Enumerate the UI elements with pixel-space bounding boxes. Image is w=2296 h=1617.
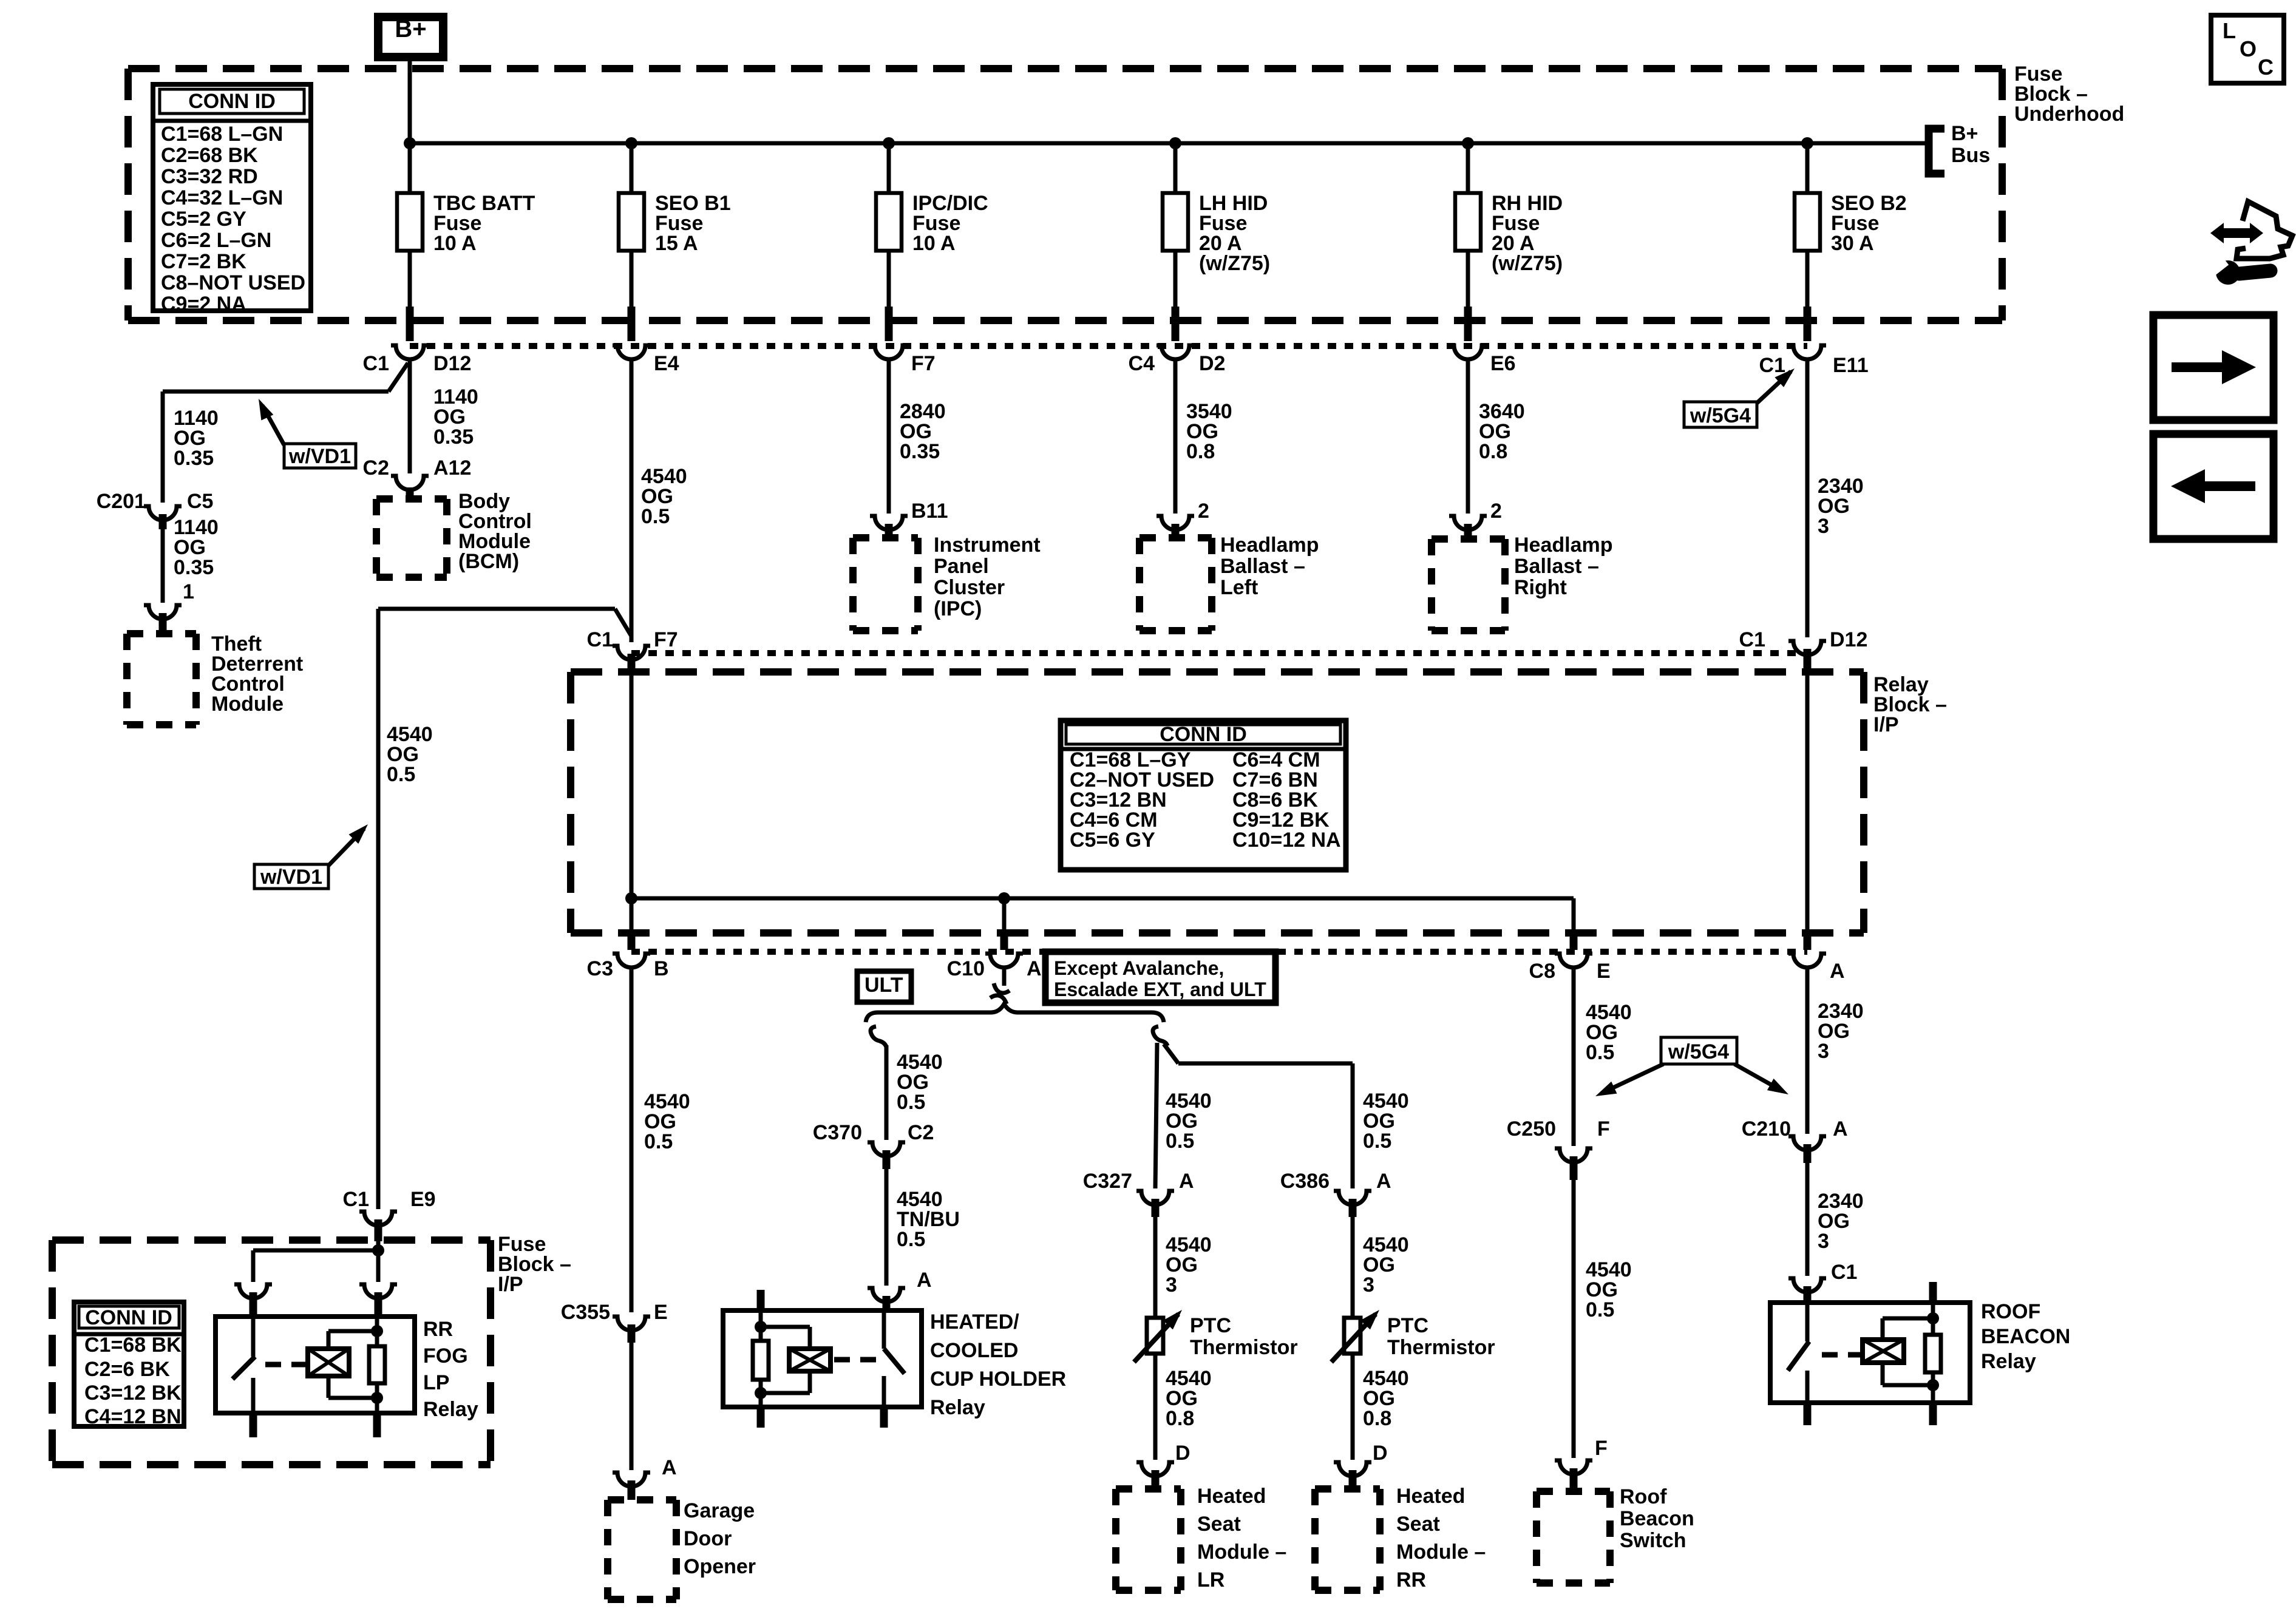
svg-text:B11: B11 bbox=[911, 500, 948, 523]
svg-text:C1: C1 bbox=[1831, 1261, 1857, 1284]
svg-text:C8–NOT USED: C8–NOT USED bbox=[161, 271, 305, 294]
svg-text:Door: Door bbox=[684, 1527, 732, 1550]
svg-text:0.5: 0.5 bbox=[897, 1228, 925, 1251]
svg-text:F7: F7 bbox=[911, 352, 936, 375]
svg-text:Relay: Relay bbox=[1981, 1350, 2036, 1373]
svg-text:C5: C5 bbox=[187, 490, 213, 513]
svg-text:C3=12 BK: C3=12 BK bbox=[84, 1381, 182, 1405]
svg-text:C2: C2 bbox=[908, 1121, 934, 1144]
svg-text:L: L bbox=[2223, 18, 2236, 43]
svg-text:C210: C210 bbox=[1742, 1117, 1791, 1141]
svg-text:F7: F7 bbox=[654, 628, 678, 651]
svg-text:C2=68 BK: C2=68 BK bbox=[161, 144, 258, 167]
svg-text:LR: LR bbox=[1197, 1568, 1224, 1592]
svg-text:A: A bbox=[1179, 1170, 1194, 1193]
svg-text:E: E bbox=[1597, 960, 1611, 983]
svg-text:I/P: I/P bbox=[1873, 713, 1899, 736]
svg-text:LP: LP bbox=[423, 1371, 449, 1394]
svg-text:C2=6 BK: C2=6 BK bbox=[84, 1358, 170, 1381]
svg-text:E4: E4 bbox=[654, 352, 679, 375]
svg-text:C5=6 GY: C5=6 GY bbox=[1070, 829, 1155, 852]
svg-text:2: 2 bbox=[1198, 500, 1209, 523]
svg-text:E6: E6 bbox=[1490, 352, 1516, 375]
svg-text:C: C bbox=[2258, 55, 2274, 80]
svg-text:Headlamp: Headlamp bbox=[1220, 534, 1319, 557]
svg-text:O: O bbox=[2240, 36, 2257, 61]
svg-text:D: D bbox=[1373, 1442, 1388, 1465]
svg-text:C2: C2 bbox=[363, 456, 389, 480]
svg-text:C6=2 L–GN: C6=2 L–GN bbox=[161, 229, 271, 252]
svg-text:3: 3 bbox=[1818, 1040, 1829, 1063]
svg-text:C201: C201 bbox=[97, 490, 146, 513]
svg-text:0.5: 0.5 bbox=[1586, 1298, 1614, 1321]
svg-text:3: 3 bbox=[1818, 515, 1829, 538]
svg-text:PTC: PTC bbox=[1190, 1314, 1231, 1337]
svg-text:Headlamp: Headlamp bbox=[1514, 534, 1613, 557]
svg-text:C3: C3 bbox=[587, 957, 613, 980]
svg-text:0.5: 0.5 bbox=[641, 505, 670, 528]
svg-text:Roof: Roof bbox=[1620, 1485, 1667, 1508]
svg-text:RR: RR bbox=[423, 1318, 453, 1341]
svg-text:Beacon: Beacon bbox=[1620, 1507, 1694, 1530]
svg-text:D12: D12 bbox=[1830, 628, 1867, 651]
svg-text:2: 2 bbox=[1490, 500, 1502, 523]
svg-text:(IPC): (IPC) bbox=[934, 597, 982, 620]
svg-text:w/5G4: w/5G4 bbox=[1690, 404, 1751, 427]
svg-text:C1=68 BK: C1=68 BK bbox=[84, 1334, 182, 1357]
svg-text:0.35: 0.35 bbox=[174, 447, 214, 470]
svg-text:w/5G4: w/5G4 bbox=[1668, 1040, 1729, 1063]
svg-text:0.8: 0.8 bbox=[1479, 440, 1507, 463]
svg-text:PTC: PTC bbox=[1387, 1314, 1428, 1337]
svg-text:Cluster: Cluster bbox=[934, 576, 1005, 599]
svg-text:10 A: 10 A bbox=[912, 232, 956, 255]
svg-text:FOG: FOG bbox=[423, 1344, 468, 1368]
svg-text:Bus: Bus bbox=[1951, 144, 1990, 167]
svg-text:Relay: Relay bbox=[930, 1396, 985, 1419]
svg-text:0.8: 0.8 bbox=[1363, 1407, 1391, 1430]
svg-text:0.5: 0.5 bbox=[897, 1091, 925, 1114]
svg-text:Escalade EXT, and ULT: Escalade EXT, and ULT bbox=[1054, 978, 1266, 1000]
svg-text:Heated: Heated bbox=[1396, 1485, 1465, 1508]
svg-text:ULT: ULT bbox=[864, 974, 903, 997]
svg-text:F: F bbox=[1597, 1117, 1610, 1141]
svg-text:(w/Z75): (w/Z75) bbox=[1492, 252, 1563, 275]
svg-text:C4=12 BN: C4=12 BN bbox=[84, 1405, 182, 1428]
svg-text:0.35: 0.35 bbox=[433, 425, 474, 449]
svg-text:C370: C370 bbox=[813, 1121, 862, 1144]
svg-text:0.5: 0.5 bbox=[1166, 1130, 1194, 1153]
svg-text:Right: Right bbox=[1514, 576, 1567, 599]
svg-text:Relay: Relay bbox=[423, 1398, 478, 1421]
svg-text:3: 3 bbox=[1363, 1273, 1374, 1297]
svg-text:B+: B+ bbox=[395, 16, 426, 42]
svg-text:Module: Module bbox=[211, 693, 284, 716]
svg-text:C1: C1 bbox=[1739, 628, 1765, 651]
svg-text:C7=2 BK: C7=2 BK bbox=[161, 250, 246, 273]
svg-text:Seat: Seat bbox=[1197, 1513, 1241, 1536]
svg-text:Module –: Module – bbox=[1197, 1541, 1286, 1564]
svg-text:Seat: Seat bbox=[1396, 1513, 1440, 1536]
svg-text:0.35: 0.35 bbox=[900, 440, 940, 463]
svg-text:10 A: 10 A bbox=[433, 232, 477, 255]
svg-text:15 A: 15 A bbox=[655, 232, 698, 255]
svg-text:0.5: 0.5 bbox=[387, 763, 415, 786]
svg-text:Underhood: Underhood bbox=[2014, 103, 2124, 126]
svg-text:CONN ID: CONN ID bbox=[85, 1306, 172, 1329]
svg-text:C250: C250 bbox=[1507, 1117, 1556, 1141]
svg-text:D2: D2 bbox=[1199, 352, 1225, 375]
svg-text:C9=2 NA: C9=2 NA bbox=[161, 293, 246, 316]
svg-text:C4=32 L–GN: C4=32 L–GN bbox=[161, 186, 283, 209]
svg-text:C355: C355 bbox=[561, 1301, 610, 1324]
svg-text:E: E bbox=[654, 1301, 668, 1324]
svg-text:Ballast –: Ballast – bbox=[1514, 555, 1599, 578]
svg-text:Instrument: Instrument bbox=[934, 534, 1041, 557]
svg-text:E11: E11 bbox=[1833, 354, 1869, 377]
svg-text:A: A bbox=[662, 1456, 677, 1479]
svg-text:D: D bbox=[1175, 1442, 1190, 1465]
svg-text:Panel: Panel bbox=[934, 555, 989, 578]
svg-text:Left: Left bbox=[1220, 576, 1258, 599]
svg-text:HEATED/: HEATED/ bbox=[930, 1310, 1019, 1334]
svg-text:Heated: Heated bbox=[1197, 1485, 1266, 1508]
svg-text:Opener: Opener bbox=[684, 1555, 756, 1578]
svg-text:CONN ID: CONN ID bbox=[1160, 723, 1247, 746]
svg-text:B+: B+ bbox=[1951, 122, 1978, 145]
svg-text:A12: A12 bbox=[433, 456, 471, 480]
svg-text:C3=32 RD: C3=32 RD bbox=[161, 165, 258, 188]
svg-text:C1=68 L–GN: C1=68 L–GN bbox=[161, 123, 283, 146]
svg-text:C1: C1 bbox=[587, 628, 613, 651]
svg-text:CUP HOLDER: CUP HOLDER bbox=[930, 1368, 1066, 1391]
svg-text:3: 3 bbox=[1818, 1230, 1829, 1253]
svg-text:Ballast –: Ballast – bbox=[1220, 555, 1305, 578]
svg-text:C10: C10 bbox=[947, 957, 985, 980]
svg-text:1: 1 bbox=[183, 580, 194, 603]
svg-text:CONN ID: CONN ID bbox=[188, 90, 276, 113]
svg-text:C386: C386 bbox=[1280, 1170, 1330, 1193]
svg-text:w/VD1: w/VD1 bbox=[260, 866, 322, 889]
svg-text:Thermistor: Thermistor bbox=[1190, 1336, 1298, 1359]
svg-text:30 A: 30 A bbox=[1831, 232, 1874, 255]
svg-text:A: A bbox=[1830, 960, 1845, 983]
svg-text:A: A bbox=[1027, 957, 1042, 980]
svg-text:C8: C8 bbox=[1529, 960, 1555, 983]
svg-text:F: F bbox=[1595, 1437, 1608, 1460]
svg-text:C1: C1 bbox=[343, 1188, 369, 1211]
svg-text:0.5: 0.5 bbox=[644, 1130, 673, 1153]
svg-text:Thermistor: Thermistor bbox=[1387, 1336, 1495, 1359]
svg-text:C327: C327 bbox=[1083, 1170, 1132, 1193]
svg-text:RR: RR bbox=[1396, 1568, 1426, 1592]
svg-text:0.5: 0.5 bbox=[1586, 1041, 1614, 1064]
svg-text:Garage: Garage bbox=[684, 1499, 755, 1522]
svg-text:ROOF: ROOF bbox=[1981, 1300, 2040, 1323]
svg-text:3: 3 bbox=[1166, 1273, 1177, 1297]
svg-text:B: B bbox=[654, 957, 669, 980]
svg-text:D12: D12 bbox=[433, 352, 471, 375]
svg-text:BEACON: BEACON bbox=[1981, 1325, 2070, 1348]
svg-text:w/VD1: w/VD1 bbox=[288, 445, 351, 468]
svg-text:0.5: 0.5 bbox=[1363, 1130, 1391, 1153]
svg-text:(BCM): (BCM) bbox=[458, 550, 519, 573]
svg-text:Except Avalanche,: Except Avalanche, bbox=[1054, 957, 1224, 979]
svg-text:I/P: I/P bbox=[498, 1273, 523, 1296]
svg-text:C5=2 GY: C5=2 GY bbox=[161, 208, 246, 231]
svg-text:E9: E9 bbox=[410, 1188, 436, 1211]
svg-text:A: A bbox=[917, 1269, 932, 1292]
svg-text:0.8: 0.8 bbox=[1186, 440, 1215, 463]
svg-text:A: A bbox=[1833, 1117, 1848, 1141]
svg-text:Switch: Switch bbox=[1620, 1529, 1686, 1552]
svg-text:C1: C1 bbox=[1759, 354, 1785, 377]
svg-text:(w/Z75): (w/Z75) bbox=[1199, 252, 1270, 275]
svg-text:C4: C4 bbox=[1129, 352, 1155, 375]
svg-text:Module –: Module – bbox=[1396, 1541, 1486, 1564]
svg-text:COOLED: COOLED bbox=[930, 1339, 1018, 1362]
svg-text:C10=12 NA: C10=12 NA bbox=[1232, 829, 1341, 852]
svg-text:C1: C1 bbox=[363, 352, 389, 375]
svg-text:0.35: 0.35 bbox=[174, 556, 214, 579]
svg-text:A: A bbox=[1376, 1170, 1391, 1193]
svg-text:0.8: 0.8 bbox=[1166, 1407, 1194, 1430]
